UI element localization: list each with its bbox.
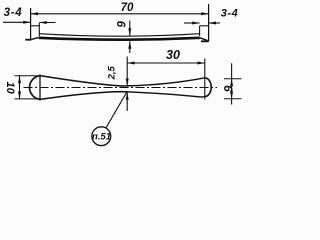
svg-text:2,5: 2,5	[106, 65, 117, 80]
svg-text:30: 30	[166, 48, 180, 62]
plan view: right end chord vertical / 30 extension	[204, 59, 206, 100]
dim 30: dimension line	[127, 62, 205, 64]
side view: upper face line sagging to middle	[39, 34, 199, 37]
arrowhead right of dim 70	[201, 12, 208, 15]
side view: right bottom chamfer diagonal	[200, 38, 208, 41]
dim 6 right: vertical with arrows	[231, 63, 233, 104]
svg-text:3-4: 3-4	[4, 7, 23, 19]
п.51 balloon circle	[92, 127, 111, 146]
side view: right end vertical edge / extension line	[208, 4, 210, 41]
svg-text:3-4: 3-4	[221, 8, 238, 20]
side view: left end vertical edge / extension line	[30, 8, 32, 39]
plan view: left head chord vertical	[39, 75, 41, 101]
dim 2,5: upper arrow pointing down	[126, 79, 129, 86]
side view: thick lower edge sagging to middle	[39, 38, 200, 40]
plan view: left round head arc	[30, 76, 40, 100]
side view: left protruding tip tick	[25, 39, 31, 41]
svg-text:70: 70	[121, 2, 134, 14]
thickness dim 6: lower arrow pointing up	[129, 41, 131, 53]
thickness dim 6: upper arrow pointing down	[129, 21, 131, 36]
svg-text:6: 6	[114, 21, 126, 28]
plan view: lower edge neck curve	[40, 92, 205, 100]
dim 2,5: lower arrow pointing up	[126, 92, 128, 111]
arrow pointing right at chamfer shoulder x=199.6	[184, 22, 200, 24]
leader line for left 3-4 with arrow to x=30.6	[3, 21, 31, 23]
svg-text:п.51: п.51	[92, 131, 111, 142]
leader line to п.51	[106, 92, 127, 128]
dim 6 right: extension lines	[224, 78, 242, 80]
arrowhead left of dim 70	[31, 12, 38, 15]
side view: right shoulder vertical	[199, 26, 201, 36]
dim 10: vertical line with arrows	[19, 76, 21, 99]
side view: left shoulder vertical	[38, 23, 40, 36]
side view: right bottom tick	[201, 40, 209, 42]
svg-text:6: 6	[221, 85, 235, 92]
svg-text:10: 10	[4, 82, 16, 95]
plan view: right rounded end arc	[205, 78, 211, 97]
side view: top stub left (full-thickness end tab)	[31, 25, 40, 27]
side view: top stub right	[200, 25, 209, 27]
dim 10: extension lines	[15, 75, 38, 77]
plan view: centre line (dash-dot)	[24, 87, 218, 89]
side view: left bottom chamfer diagonal	[31, 37, 39, 39]
dimension line 70	[31, 13, 209, 15]
arrow pointing left at chamfer shoulder x=39.3	[39, 22, 55, 24]
dim 30: left extension vertical	[126, 57, 128, 86]
arrow pointing left at right edge x=208.6, tail to text	[209, 22, 220, 24]
plan view: upper edge neck curve	[40, 76, 205, 86]
